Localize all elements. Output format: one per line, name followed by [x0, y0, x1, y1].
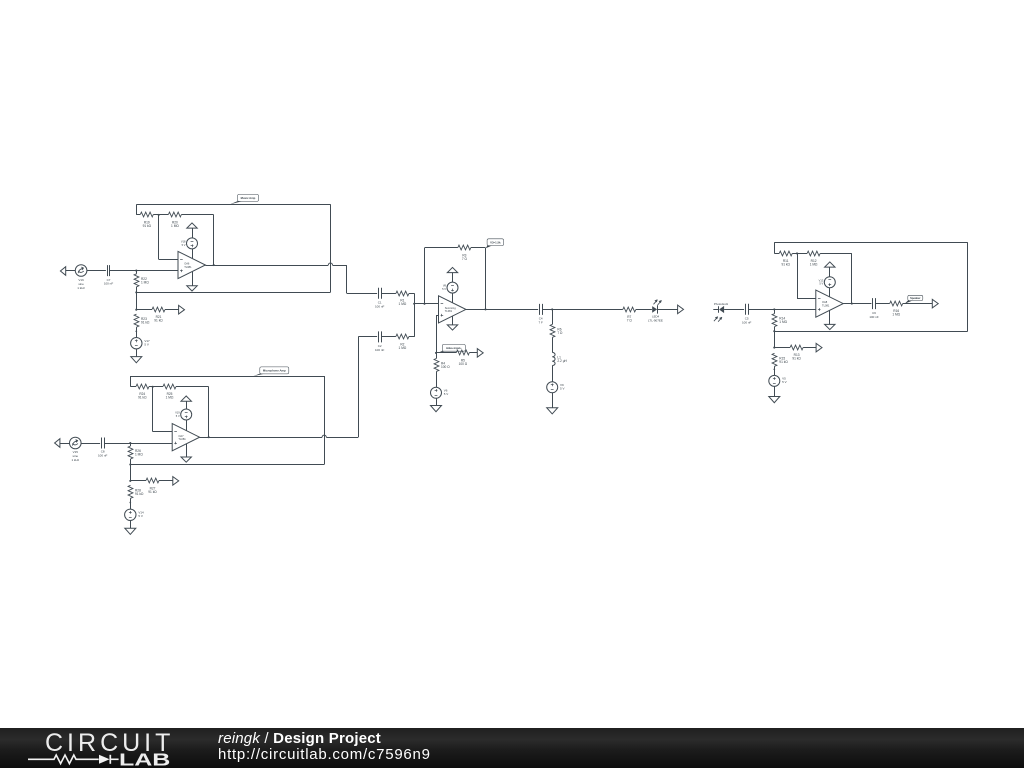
- svg-text:91 kΩ: 91 kΩ: [143, 224, 152, 228]
- node speaker plus junction: [773, 308, 775, 310]
- wire speaker inverting: [797, 253, 816, 298]
- wire mic bias loop top: [131, 376, 325, 387]
- resistor R13: [774, 345, 816, 360]
- wire OA8 V+ stem: [829, 288, 831, 297]
- resistor R16: [875, 301, 932, 317]
- capacitor C4: [539, 304, 544, 325]
- wire mic output riser: [358, 337, 360, 437]
- label Speaker callout: [905, 295, 923, 303]
- resistor R21: [136, 307, 178, 323]
- svg-text:100 Ω: 100 Ω: [459, 362, 468, 366]
- node music divider junction: [135, 309, 137, 311]
- svg-text:5 V: 5 V: [819, 282, 823, 286]
- op-amp OA7: [172, 424, 199, 451]
- svg-text:V19: V19: [175, 411, 180, 415]
- svg-text:7 Ω: 7 Ω: [557, 331, 563, 335]
- capacitor C6: [869, 298, 879, 319]
- terminal speaker out: [932, 299, 938, 308]
- op-amp Summing: [439, 296, 466, 323]
- resistor R19: [137, 212, 159, 228]
- resistor R7: [623, 307, 652, 322]
- wire summing V- stem: [452, 316, 454, 325]
- capacitor C5: [742, 304, 752, 325]
- svg-text:TL081: TL081: [178, 437, 186, 441]
- label Music Amp callout: [230, 194, 259, 204]
- svg-text:100 nF: 100 nF: [869, 315, 879, 319]
- wire V19 to VCC arrow: [186, 401, 188, 409]
- voltage source V9: [547, 382, 565, 393]
- svg-text:5 V: 5 V: [138, 514, 143, 518]
- wire to V14: [130, 503, 132, 510]
- node speaker bias junction: [773, 330, 775, 332]
- power VCC arrow summing: [447, 267, 457, 272]
- resistor R5: [436, 350, 477, 366]
- svg-text:5 V: 5 V: [182, 243, 186, 247]
- wire summing node riser: [414, 293, 416, 337]
- node music output junction: [213, 264, 215, 266]
- source V16 sine: [75, 265, 87, 290]
- ground music: [131, 357, 142, 363]
- logo CircuitLab wordmark: [45, 729, 173, 768]
- wire OA6 V- stem: [192, 272, 194, 286]
- wire mic bias to divider: [130, 465, 132, 481]
- node mic bias junction: [129, 463, 131, 465]
- svg-text:5 V: 5 V: [444, 392, 449, 396]
- wire V15 to C8: [81, 443, 100, 445]
- voltage source V5: [769, 375, 787, 386]
- LED LED4: [648, 300, 663, 323]
- svg-text:1 kHz: 1 kHz: [77, 286, 85, 290]
- wire V16 to C7: [87, 270, 106, 272]
- inductor L1: [552, 352, 567, 365]
- terminal speaker ref: [816, 343, 822, 352]
- voltage source V6: [431, 387, 449, 398]
- svg-text:V8: V8: [443, 284, 447, 288]
- svg-text:5 V: 5 V: [176, 414, 180, 418]
- svg-text:2.2 µH: 2.2 µH: [557, 359, 567, 363]
- svg-text:5 V: 5 V: [442, 287, 446, 291]
- svg-text:100 Ω: 100 Ω: [441, 365, 450, 369]
- node led branch junction: [551, 308, 553, 310]
- node mic fb junction: [152, 386, 154, 388]
- terminal music ref: [179, 305, 185, 314]
- wire LED to terminal: [657, 309, 677, 311]
- svg-text:mike+input+: mike+input+: [446, 346, 462, 350]
- wire music bias loop right: [330, 204, 332, 292]
- power VCC arrow music: [187, 223, 197, 228]
- node music src junction: [135, 330, 137, 332]
- node summing fb tap: [423, 303, 425, 305]
- wire branch1: [347, 293, 377, 295]
- wire photodiode to C5: [724, 309, 744, 311]
- svg-text:5 V: 5 V: [782, 380, 787, 384]
- wire music output: [205, 263, 346, 266]
- ground led branch: [547, 408, 558, 414]
- photodiode D1: [713, 306, 724, 322]
- svg-text:TL081: TL081: [822, 303, 830, 307]
- node mic plus junction: [129, 442, 131, 444]
- wire music output riser: [346, 265, 348, 293]
- svg-text:1 MΩ: 1 MΩ: [166, 396, 174, 400]
- resistor R11: [774, 251, 797, 266]
- svg-text:7 Ω: 7 Ω: [627, 318, 633, 322]
- resistor R23: [134, 314, 150, 331]
- svg-text:5 V: 5 V: [560, 387, 565, 391]
- wire to V17: [136, 331, 138, 337]
- wire speaker bias loop bottom: [774, 331, 967, 333]
- svg-text:5 V: 5 V: [144, 343, 149, 347]
- svg-text:LTL-907EE: LTL-907EE: [648, 318, 663, 322]
- op-amp OA6: [178, 251, 205, 278]
- source V15 sine: [70, 437, 82, 462]
- resistor R28: [128, 485, 144, 502]
- node speaker fb junction: [796, 252, 798, 254]
- capacitor C2: [375, 331, 385, 352]
- wire V13 to VCC arrow: [829, 267, 831, 277]
- capacitor C1: [375, 288, 385, 309]
- label V3 callout: [486, 239, 504, 248]
- wire OA6 V+ stem: [192, 249, 194, 258]
- wire L1 to V9: [552, 366, 554, 382]
- power VCC arrow mic: [181, 396, 191, 401]
- svg-text:1 kHz: 1 kHz: [71, 458, 79, 462]
- svg-text:1 MΩ: 1 MΩ: [141, 280, 149, 284]
- wire mic bias loop right: [324, 376, 326, 465]
- resistor R1: [381, 291, 414, 306]
- node music plus junction: [135, 270, 137, 272]
- resistor R4: [434, 353, 450, 387]
- wire bias to divider: [136, 292, 138, 309]
- node music fb junction: [158, 214, 160, 216]
- svg-text:91 kΩ: 91 kΩ: [792, 357, 801, 361]
- voltage source V17: [131, 338, 150, 349]
- wire speaker bias loop right: [967, 242, 969, 331]
- terminal audio out: [678, 305, 684, 314]
- terminal mic ref: [173, 477, 179, 486]
- svg-text:TL081: TL081: [184, 265, 192, 269]
- capacitor C7: [104, 265, 114, 286]
- voltage source V14: [125, 509, 144, 520]
- svg-text:Music Amp: Music Amp: [241, 196, 256, 200]
- wire music bias loop bottom: [136, 292, 330, 294]
- svg-text:91 kΩ: 91 kΩ: [779, 360, 788, 364]
- svg-text:91 kΩ: 91 kΩ: [781, 262, 790, 266]
- svg-text:91 kΩ: 91 kΩ: [148, 490, 157, 494]
- resistor R22: [134, 271, 149, 293]
- wire R20 to output: [213, 215, 215, 265]
- svg-text:1 MΩ: 1 MΩ: [171, 224, 179, 228]
- wire summing fb riser left: [424, 248, 426, 304]
- svg-text:91 kΩ: 91 kΩ: [138, 396, 147, 400]
- svg-text:V13: V13: [819, 278, 824, 282]
- ground speaker: [769, 397, 780, 403]
- svg-text:LAB: LAB: [119, 749, 170, 768]
- svg-text:1 MΩ: 1 MΩ: [892, 313, 900, 317]
- wire mic inverting input: [153, 387, 173, 432]
- wire music bias loop top: [137, 204, 331, 215]
- wire music inverting input: [159, 215, 179, 260]
- svg-text:V3=1.5k: V3=1.5k: [490, 240, 501, 244]
- svg-text:91 kΩ: 91 kΩ: [135, 492, 144, 496]
- node music bias junction: [135, 291, 137, 293]
- ground mic: [125, 528, 136, 534]
- label mike input callout: [437, 344, 465, 353]
- svg-text:1 MΩ: 1 MΩ: [399, 302, 407, 306]
- wire OA8 V- stem: [829, 310, 831, 324]
- terminal mic input: [55, 439, 70, 448]
- svg-text:100 nF: 100 nF: [104, 282, 114, 286]
- wire OA7 V+ stem: [186, 420, 188, 431]
- node summing in: [413, 303, 415, 305]
- wire V17 to ground: [136, 349, 138, 357]
- resistor R24: [131, 384, 153, 400]
- power VEE arrow mic: [181, 457, 191, 462]
- svg-text:1 MΩ: 1 MΩ: [810, 262, 818, 266]
- resistor R12: [797, 251, 852, 266]
- svg-text:Photodiod1: Photodiod1: [714, 302, 729, 306]
- power VCC arrow speaker: [825, 262, 835, 267]
- node mic src junction: [129, 502, 131, 504]
- wire R25 to output: [208, 387, 210, 437]
- wire C8 to noninverting: [104, 443, 172, 445]
- wire C7 to noninverting: [110, 270, 178, 272]
- voltage source V13: [819, 277, 836, 288]
- svg-text:7 Ω: 7 Ω: [462, 257, 468, 261]
- node summing plus junction: [435, 352, 437, 354]
- op-amp OA8: [816, 290, 843, 317]
- wire mic bias loop bottom: [130, 464, 324, 466]
- svg-text:100 nF: 100 nF: [742, 320, 752, 324]
- wire V5 to ground: [774, 386, 776, 396]
- svg-text:V18: V18: [181, 240, 186, 244]
- wire V8 to VCC arrow: [452, 273, 454, 283]
- power VEE arrow speaker: [825, 324, 835, 329]
- wire summing noninverting: [436, 315, 439, 353]
- ground summing: [431, 406, 442, 412]
- wire summing fb riser right: [485, 248, 487, 310]
- node speaker output junction: [851, 303, 853, 305]
- svg-text:1 MΩ: 1 MΩ: [399, 346, 407, 350]
- wire V6 to ground: [436, 398, 438, 405]
- wire speaker bias to divider: [774, 331, 776, 347]
- resistor R6: [550, 309, 563, 352]
- power VEE arrow music: [187, 286, 197, 291]
- wire node to R7: [552, 309, 623, 311]
- wire summing V+ stem: [452, 293, 454, 303]
- wire OA7 V- stem: [186, 444, 188, 457]
- wire V18 to VCC arrow: [192, 228, 194, 238]
- voltage source V19: [175, 409, 192, 420]
- wire C4 to node: [542, 309, 552, 311]
- wire R12 to output: [851, 253, 853, 303]
- resistor R26: [128, 443, 143, 465]
- wire speaker output: [843, 303, 871, 305]
- svg-text:Speaker: Speaker: [910, 296, 920, 300]
- svg-text:91 kΩ: 91 kΩ: [154, 319, 163, 323]
- wire speaker bias loop top: [774, 242, 967, 253]
- svg-text:100 nF: 100 nF: [375, 348, 385, 352]
- svg-text:91 kΩ: 91 kΩ: [141, 321, 150, 325]
- voltage source V8: [442, 282, 458, 293]
- wire summing inverting: [414, 303, 438, 305]
- resistor R27: [130, 478, 173, 494]
- wire V14 to ground: [130, 521, 132, 529]
- logo resistor-diode glyph: [28, 755, 119, 764]
- wire mic output: [200, 435, 359, 437]
- resistor R14: [772, 309, 788, 331]
- node speaker src junction: [773, 368, 775, 370]
- node mic output junction: [208, 436, 210, 438]
- voltage source V18: [181, 238, 198, 249]
- svg-text:100 nF: 100 nF: [375, 304, 385, 308]
- svg-text:1 MΩ: 1 MΩ: [779, 320, 787, 324]
- wire summing output: [466, 309, 538, 311]
- terminal summing ref: [477, 349, 483, 358]
- wire V9 to ground: [552, 393, 554, 408]
- power VEE arrow summing: [447, 325, 457, 330]
- svg-text:100 nF: 100 nF: [98, 454, 108, 458]
- resistor R15: [772, 353, 788, 369]
- wire to V5: [774, 369, 776, 375]
- svg-text:Microphone Amp: Microphone Amp: [263, 369, 286, 373]
- resistor R20: [159, 212, 214, 228]
- node summing fb out junction: [484, 308, 486, 310]
- svg-text:1 MΩ: 1 MΩ: [135, 453, 143, 457]
- resistor R25: [153, 384, 209, 400]
- capacitor C8: [98, 438, 108, 458]
- node speaker divider junction: [773, 347, 775, 349]
- svg-text:7 F: 7 F: [539, 321, 544, 325]
- label Microphone Amp callout: [253, 367, 289, 376]
- terminal music input: [60, 267, 75, 276]
- resistor R2: [381, 334, 414, 350]
- wire C5 to noninverting: [748, 309, 816, 311]
- resistor R3: [425, 245, 486, 261]
- wire branch2: [358, 336, 377, 338]
- svg-text:TL081: TL081: [445, 309, 453, 313]
- node mic divider junction: [129, 480, 131, 482]
- label photodiode: [714, 302, 729, 306]
